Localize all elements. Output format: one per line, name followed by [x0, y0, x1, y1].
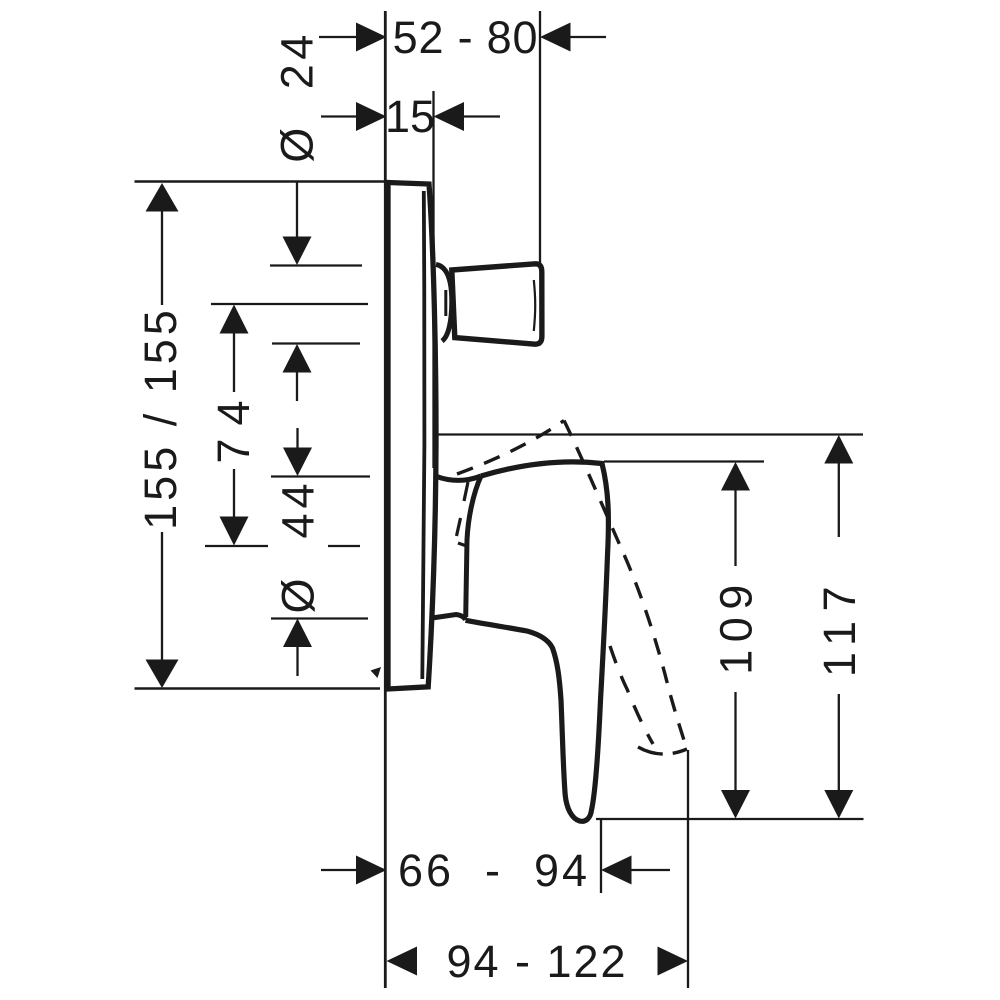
svg-text:Ø 24: Ø 24: [272, 30, 323, 163]
dashed lever top edge (alternate position): [457, 421, 564, 475]
svg-text:117: 117: [814, 577, 865, 677]
arrow 52-80 left: [356, 23, 387, 52]
dimension Ø44 outside arrows: [296, 428, 298, 449]
dimension line 155/155 with arrows: [146, 183, 179, 212]
arrow 52-80 right: [540, 23, 571, 52]
knob right face inner line: [534, 280, 535, 331]
arrow 94-122 left: [387, 947, 418, 976]
arrow 94-122 right: [658, 947, 689, 976]
extension line 52-80 right: [539, 11, 541, 263]
extension line hub centre y546 (gap for text): [205, 545, 268, 547]
extension line hub top y476: [271, 475, 370, 477]
extension line knob bottom y343: [272, 342, 360, 344]
knob body: [452, 264, 542, 344]
svg-text:15: 15: [385, 91, 435, 142]
escutcheon plate outline: [388, 183, 436, 690]
dashed hub left face marks: [464, 482, 468, 501]
arrow 15 right: [434, 102, 465, 131]
svg-text:109: 109: [711, 577, 762, 675]
small wall leader arrow: [371, 667, 382, 678]
lever outline (top edge, right edge, tip, underside): [466, 462, 609, 821]
extension line hub bottom y618: [271, 617, 368, 619]
extension line bottom of plate y688: [135, 687, 381, 690]
dashed lever tip arc: [638, 747, 687, 754]
knob stem outer arc: [436, 265, 452, 342]
dashed lever outer edge: [564, 421, 687, 749]
knob stem waist line: [444, 290, 447, 316]
dashed lever inner edge: [610, 646, 653, 744]
arrow 66-94 right: [601, 856, 632, 885]
wall reference line: [384, 11, 387, 988]
extension line top of plate y182: [135, 180, 389, 183]
svg-text:155 / 155: 155 / 155: [135, 306, 186, 530]
dimension line 117 with arrows: [824, 435, 853, 464]
extension line dashed lever top y435: [438, 433, 863, 435]
extension line knob centre y304: [211, 303, 368, 305]
extension line bottom y819: [596, 818, 864, 820]
dimension line 74 with arrows: [220, 305, 249, 334]
extension line dashed tip x688: [687, 750, 689, 988]
extension line knob top y265: [270, 264, 362, 266]
svg-text:Ø 44: Ø 44: [273, 478, 324, 613]
arrow 66-94 left: [321, 869, 357, 871]
svg-text:66 - 94: 66 - 94: [398, 845, 590, 896]
arrow 15 left: [356, 102, 387, 131]
lever hub bottom edge: [432, 615, 466, 620]
svg-text:52 - 80: 52 - 80: [393, 12, 539, 63]
plate inner rim line: [422, 191, 424, 679]
extension line lever top corner y461.5: [604, 460, 764, 462]
svg-text:74: 74: [208, 387, 259, 463]
extension line lever tip x601: [600, 818, 602, 893]
dimension line 109 with arrows: [721, 462, 750, 491]
svg-text:94 - 122: 94 - 122: [446, 936, 627, 987]
extension line 15 right: [432, 91, 434, 468]
lever hub top edge: [437, 476, 482, 480]
dimension Ø24 outside arrows: [296, 182, 298, 238]
lever hub left face: [466, 476, 481, 617]
